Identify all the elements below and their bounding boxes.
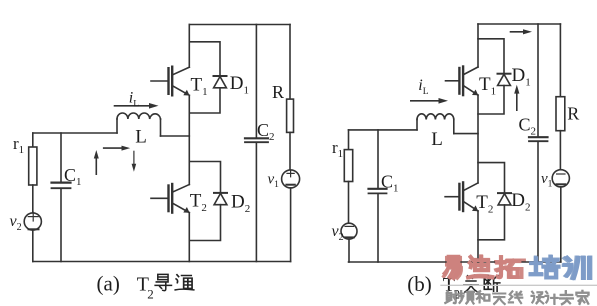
inductor L (a) bbox=[117, 113, 161, 136]
watermark hanzi tuo red bbox=[497, 258, 519, 278]
svg-text:D1: D1 bbox=[230, 73, 249, 97]
hanzi zhuan bbox=[560, 291, 572, 304]
wire left horizontal (a) bbox=[33, 132, 117, 134]
wire D2 top tap (b) bbox=[478, 163, 505, 194]
watermark hanzi yi red bbox=[444, 258, 461, 279]
svg-text:iL: iL bbox=[418, 77, 428, 97]
svg-text:v2: v2 bbox=[10, 213, 22, 233]
svg-text:v1: v1 bbox=[268, 172, 280, 191]
wire D2 bottom tap (b) bbox=[478, 205, 505, 240]
current arrow iL (a) bbox=[115, 103, 159, 109]
wire C1 stub (a) bbox=[60, 133, 62, 182]
label C2 (b) bbox=[519, 115, 537, 138]
wire C2 branch top (a) bbox=[255, 25, 257, 139]
wire R branch top (b) bbox=[559, 24, 561, 97]
watermark hanzi di red bbox=[468, 257, 492, 278]
svg-text:(a): (a) bbox=[97, 272, 120, 296]
source v2 (a) bbox=[24, 212, 41, 230]
svg-text:C2: C2 bbox=[257, 120, 275, 143]
svg-text:D1: D1 bbox=[512, 65, 531, 89]
label T1 (b) bbox=[479, 74, 496, 98]
hanzi pin bbox=[459, 291, 474, 303]
wire r1 to v2 (a) bbox=[32, 185, 34, 213]
svg-text:r1: r1 bbox=[13, 134, 24, 156]
caption hanzi tong (a) bbox=[175, 275, 193, 290]
wire rail top to T1 collector (a) bbox=[188, 25, 190, 68]
wire rail T2 emitter to bottom (b) bbox=[477, 211, 479, 262]
hanzi jia bbox=[576, 291, 588, 304]
wire r1 to v2 (b) bbox=[348, 182, 350, 224]
label D2 (b) bbox=[511, 190, 530, 214]
transistor T1 IGBT (a) bbox=[151, 67, 190, 96]
caption hanzi guan (b) bbox=[464, 276, 478, 292]
wire D1 bottom tap (a) bbox=[189, 88, 220, 113]
hanzi she2 bbox=[445, 291, 458, 303]
wire C1 stub (b) bbox=[377, 130, 379, 189]
current arrow up near C2 (b) bbox=[514, 85, 519, 111]
label C1 (a) bbox=[64, 165, 82, 188]
wire rail T1 emitter to T2 collector (a) bbox=[188, 95, 190, 184]
transistor T2 IGBT (a) bbox=[151, 184, 190, 213]
label T2 (a) bbox=[190, 191, 207, 215]
source v1 (a) bbox=[282, 170, 300, 188]
watermark hanzi pei blue bbox=[531, 257, 559, 278]
hanzi zhuan bbox=[560, 291, 573, 304]
hanzi xian bbox=[509, 291, 523, 303]
svg-text:D2: D2 bbox=[231, 192, 250, 216]
wire bottom rail (b) bbox=[349, 261, 561, 263]
transistor T1 IGBT (b) bbox=[446, 67, 479, 96]
label r1 (a) bbox=[13, 134, 24, 156]
svg-text:(b): (b) bbox=[407, 272, 432, 296]
resistor R (a) bbox=[287, 99, 294, 132]
wire R to v1 (a) bbox=[289, 132, 291, 170]
wire C2 branch top (b) bbox=[537, 24, 539, 137]
svg-text:L: L bbox=[135, 127, 147, 148]
capacitor C1 (a) bbox=[52, 183, 71, 189]
watermark underline bbox=[441, 284, 597, 286]
label r1 (b) bbox=[332, 138, 343, 160]
wire left branch top stub (b) bbox=[348, 130, 350, 150]
label v2 (b) bbox=[332, 223, 344, 243]
label C1 (b) bbox=[381, 172, 399, 195]
caption hanzi dao (a) bbox=[155, 274, 171, 290]
watermark hanzi xun blue bbox=[564, 257, 590, 278]
label D1 (a) bbox=[230, 73, 249, 97]
watermark underline bbox=[441, 284, 597, 286]
hanzi pin bbox=[459, 291, 473, 303]
wire left branch top stub (a) bbox=[32, 133, 34, 147]
wire top rail (a) bbox=[189, 24, 290, 26]
wire C2 to bottom (b) bbox=[537, 142, 539, 263]
hanzi ji bbox=[545, 292, 557, 304]
watermark line2 gray bbox=[445, 291, 588, 304]
hanzi he bbox=[476, 291, 489, 302]
resistor R (b) bbox=[556, 97, 565, 131]
source v2 (b) bbox=[341, 223, 357, 239]
svg-text:C1: C1 bbox=[64, 165, 82, 188]
svg-text:D2: D2 bbox=[511, 190, 530, 214]
wire C2 to bottom (a) bbox=[255, 143, 257, 262]
resistor r1 (b) bbox=[344, 150, 352, 182]
wire D1 bottom tap (b) bbox=[478, 86, 504, 115]
svg-text:2: 2 bbox=[147, 287, 154, 302]
label v1 (b) bbox=[541, 171, 553, 190]
label R (a) bbox=[272, 82, 284, 102]
wire inductor to rail (b) bbox=[454, 133, 478, 135]
svg-text:T1: T1 bbox=[479, 74, 496, 98]
wire C1 to bottom (b) bbox=[377, 194, 379, 262]
hanzi xian bbox=[509, 291, 522, 302]
wire rail top to T1 collector (b) bbox=[477, 24, 479, 67]
hanzi tian bbox=[493, 293, 505, 303]
label C2 (a) bbox=[257, 120, 275, 143]
current arrow top right (b) bbox=[511, 29, 533, 34]
diode D2 (b) bbox=[498, 193, 511, 205]
label T1 (a) bbox=[191, 75, 208, 99]
caption (b) bbox=[407, 272, 460, 302]
wire v2 to bottom (b) bbox=[348, 239, 350, 262]
watermark hanzi tuo red bbox=[496, 257, 524, 278]
svg-text:v1: v1 bbox=[541, 171, 553, 190]
capacitor C2 (a) bbox=[245, 138, 268, 142]
diode D1 (b) bbox=[498, 74, 511, 86]
wire bottom rail (a) bbox=[33, 261, 291, 263]
svg-text:C2: C2 bbox=[519, 115, 537, 138]
wire v1 to bottom (a) bbox=[290, 188, 292, 262]
watermark hanzi yi red bbox=[445, 257, 460, 278]
label v1 (a) bbox=[268, 172, 280, 191]
svg-text:T1: T1 bbox=[191, 75, 208, 99]
wire R to v1 (b) bbox=[559, 131, 561, 170]
loop arrow up (a) bbox=[94, 150, 99, 174]
svg-text:v2: v2 bbox=[332, 223, 344, 243]
watermark hanzi di red bbox=[469, 256, 493, 277]
wire rail T1 emitter to T2 collector (b) bbox=[477, 95, 479, 183]
svg-text:r1: r1 bbox=[332, 138, 343, 160]
label T2 (b) bbox=[476, 192, 493, 216]
hanzi jia bbox=[576, 291, 588, 304]
loop arrow right (a) bbox=[104, 146, 131, 151]
wire top rail (b) bbox=[478, 23, 560, 25]
label D2 (a) bbox=[231, 192, 250, 216]
svg-text:T2: T2 bbox=[190, 191, 207, 215]
wire C1 to bottom (a) bbox=[60, 189, 62, 262]
watermark hanzi xun blue bbox=[565, 258, 589, 278]
label D1 (b) bbox=[512, 65, 531, 89]
hanzi tian bbox=[493, 294, 505, 305]
wire v2 to bottom (a) bbox=[32, 230, 34, 261]
wire rail T2 emitter to bottom (a) bbox=[188, 213, 190, 262]
svg-text:R: R bbox=[272, 82, 284, 102]
capacitor C1 (b) bbox=[369, 189, 387, 194]
transistor T2 IGBT (b) bbox=[445, 182, 478, 211]
capacitor C2 (b) bbox=[529, 137, 548, 141]
label iL (a) bbox=[129, 90, 139, 110]
label iL (b) bbox=[418, 77, 428, 97]
diode D1 (a) bbox=[214, 76, 227, 88]
hanzi he bbox=[476, 291, 489, 302]
loop arrow down (a) bbox=[132, 151, 137, 171]
caption hanzi duan (b) bbox=[484, 276, 500, 292]
watermark hanzi pei blue bbox=[531, 256, 559, 278]
hanzi ji bbox=[546, 292, 558, 304]
svg-text:T2: T2 bbox=[476, 192, 493, 216]
label L (a) bbox=[135, 127, 147, 148]
wire D2 bottom tap (a) bbox=[189, 205, 220, 241]
resistor r1 (a) bbox=[29, 147, 37, 185]
watermark line2 gray bbox=[445, 291, 588, 304]
wire D1 top tap (b) bbox=[478, 39, 504, 74]
svg-text:C1: C1 bbox=[381, 172, 399, 195]
svg-text:L: L bbox=[431, 129, 443, 150]
label R (b) bbox=[567, 104, 579, 124]
inductor L (b) bbox=[417, 114, 454, 134]
hanzi she3 bbox=[532, 292, 544, 304]
hanzi she3 bbox=[531, 292, 543, 303]
diode D2 (a) bbox=[214, 193, 227, 205]
wire inductor to rail (a) bbox=[161, 135, 190, 137]
wire D2 top tap (a) bbox=[189, 162, 220, 193]
hanzi she2 bbox=[445, 291, 457, 303]
wire left horizontal (b) bbox=[349, 129, 418, 131]
caption (a) bbox=[97, 272, 154, 302]
label v2 (a) bbox=[10, 213, 22, 233]
wire v1 to bottom (b) bbox=[560, 187, 562, 262]
label L (b) bbox=[431, 129, 443, 150]
source v1 (b) bbox=[552, 170, 569, 187]
svg-text:R: R bbox=[567, 104, 579, 124]
wire R branch top (a) bbox=[289, 25, 291, 100]
wire D1 top tap (a) bbox=[189, 42, 220, 76]
current arrow iL (b) bbox=[411, 98, 448, 104]
